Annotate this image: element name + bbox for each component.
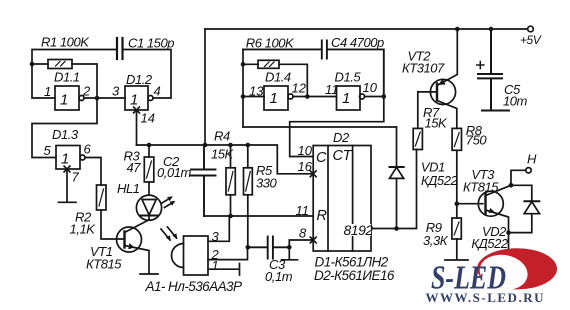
- svg-text:D1.2: D1.2: [126, 72, 153, 87]
- svg-text:КТ815: КТ815: [463, 180, 499, 195]
- svg-text:1: 1: [130, 92, 138, 109]
- svg-text:CT: CT: [333, 148, 353, 164]
- svg-text:HL1: HL1: [117, 181, 140, 196]
- svg-text:D1.3: D1.3: [52, 127, 79, 142]
- svg-text:750: 750: [466, 133, 488, 148]
- svg-text:11: 11: [296, 203, 310, 218]
- svg-text:1,1K: 1,1K: [70, 222, 97, 237]
- svg-text:6: 6: [84, 142, 92, 157]
- svg-text:A1- Hл-536АА3Р: A1- Hл-536АА3Р: [145, 279, 243, 294]
- svg-text:3: 3: [212, 229, 220, 244]
- svg-text:8192: 8192: [344, 222, 374, 238]
- svg-text:C4 4700p: C4 4700p: [331, 35, 384, 50]
- svg-text:1: 1: [60, 92, 68, 109]
- svg-text:R: R: [317, 208, 328, 224]
- svg-text:14: 14: [141, 111, 155, 126]
- svg-text:15K: 15K: [425, 116, 449, 131]
- svg-text:7: 7: [72, 170, 80, 185]
- svg-text:D2-К561ИЕ16: D2-К561ИЕ16: [314, 268, 395, 283]
- svg-text:12: 12: [292, 81, 307, 96]
- svg-text:D2: D2: [333, 130, 350, 145]
- svg-text:R4: R4: [214, 129, 230, 144]
- svg-text:4: 4: [154, 84, 161, 99]
- svg-text:C: C: [316, 150, 327, 166]
- svg-text:C1 150p: C1 150p: [128, 36, 174, 51]
- svg-text:КТ3107: КТ3107: [402, 61, 445, 76]
- svg-text:КД522: КД522: [471, 236, 508, 251]
- svg-text:WWW.S-LED.RU: WWW.S-LED.RU: [426, 290, 545, 305]
- svg-text:КТ815: КТ815: [86, 257, 122, 272]
- svg-text:330: 330: [256, 176, 278, 191]
- svg-text:1: 1: [270, 90, 278, 107]
- svg-text:1: 1: [342, 90, 350, 107]
- svg-text:R6 100K: R6 100K: [246, 36, 295, 51]
- svg-text:1: 1: [61, 151, 69, 168]
- svg-text:11: 11: [325, 82, 339, 97]
- svg-text:16: 16: [298, 159, 313, 174]
- svg-text:+5V: +5V: [520, 33, 542, 47]
- svg-text:3: 3: [112, 84, 120, 99]
- svg-text:0,01m: 0,01m: [157, 165, 192, 180]
- svg-text:15K: 15K: [211, 147, 235, 162]
- svg-text:D1.1: D1.1: [54, 70, 80, 85]
- svg-text:10: 10: [298, 143, 313, 158]
- svg-text:0,1m: 0,1m: [265, 269, 293, 284]
- svg-text:1: 1: [44, 84, 51, 99]
- svg-text:10: 10: [363, 80, 378, 95]
- svg-text:КД522: КД522: [421, 173, 458, 188]
- svg-text:8: 8: [299, 226, 307, 241]
- svg-text:1: 1: [212, 258, 219, 273]
- svg-text:2: 2: [82, 84, 91, 99]
- svg-text:D1.4: D1.4: [265, 70, 291, 85]
- svg-text:47: 47: [127, 160, 142, 175]
- svg-text:R1 100K: R1 100K: [41, 35, 90, 50]
- svg-text:D1.5: D1.5: [335, 70, 362, 85]
- svg-text:H: H: [527, 152, 537, 167]
- svg-text:3,3К: 3,3К: [423, 233, 449, 248]
- svg-text:5: 5: [44, 143, 52, 158]
- svg-text:10m: 10m: [503, 94, 528, 109]
- svg-text:13: 13: [249, 84, 264, 99]
